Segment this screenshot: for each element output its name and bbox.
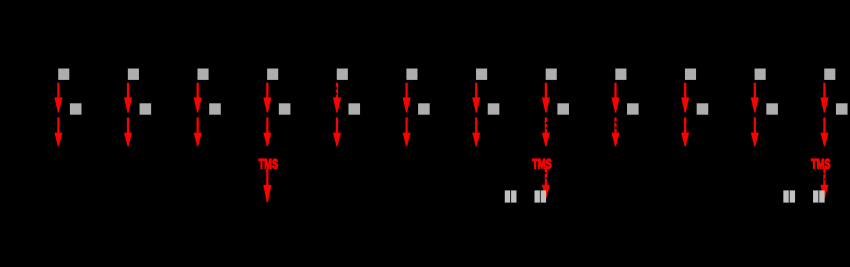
- probe square trial 7: [488, 103, 500, 114]
- red pulse arrow 1 trial 2: [124, 83, 132, 113]
- red pulse arrow 1 trial 9: [611, 83, 619, 113]
- trial 11 group: [751, 69, 778, 147]
- red pulse arrow 1 trial 3: [194, 83, 202, 113]
- trial 12 group: [783, 69, 847, 203]
- red pulse arrow 2 trial 9: [611, 117, 619, 146]
- red pulse arrow 3 trial 4: [263, 169, 271, 203]
- stimulus square trial 9: [615, 69, 626, 80]
- red pulse arrow 1 trial 11: [751, 83, 759, 113]
- trial 5 group: [333, 69, 360, 147]
- trial 4 group: [259, 69, 291, 203]
- probe square trial 2: [140, 103, 152, 114]
- probe square trial 4: [279, 103, 291, 114]
- response key pair left trial 12: [783, 190, 795, 202]
- probe square trial 9: [627, 103, 639, 114]
- svg-text:TMS: TMS: [532, 157, 552, 172]
- probe square trial 3: [209, 103, 221, 114]
- stimulus square trial 10: [685, 69, 696, 80]
- svg-text:TMS: TMS: [811, 157, 831, 172]
- red pulse arrow 2 trial 8: [542, 117, 550, 146]
- red pulse arrow 1 trial 1: [54, 83, 62, 113]
- red pulse arrow 1 trial 12: [820, 83, 828, 113]
- probe square trial 1: [70, 103, 82, 114]
- stimulus square trial 2: [128, 69, 139, 80]
- trial 7 group: [472, 69, 499, 147]
- trial 6 group: [403, 69, 430, 147]
- red label TMS trial 8: [532, 157, 552, 172]
- red pulse arrow 2 trial 1: [54, 117, 62, 146]
- red pulse arrow 1 trial 5: [333, 83, 341, 113]
- response key pair left trial 8: [505, 190, 517, 202]
- trial 3 group: [194, 69, 221, 147]
- red pulse arrow 1 trial 7: [472, 83, 480, 113]
- trial 10 group: [681, 69, 708, 147]
- red pulse arrow 2 trial 10: [681, 117, 689, 146]
- stimulus square trial 5: [337, 69, 348, 80]
- stimulus square trial 8: [546, 69, 557, 80]
- red pulse arrow 1 trial 10: [681, 83, 689, 113]
- red pulse arrow 1 trial 6: [403, 83, 411, 113]
- probe square trial 8: [557, 103, 569, 114]
- probe square trial 11: [766, 103, 778, 114]
- svg-text:TMS: TMS: [259, 157, 279, 172]
- red pulse arrow 2 trial 4: [263, 117, 271, 146]
- probe square trial 12: [836, 103, 848, 114]
- stimulus square trial 7: [476, 69, 487, 80]
- red pulse arrow 2 trial 2: [124, 117, 132, 146]
- response key pair right trial 12: [813, 190, 825, 202]
- probe square trial 10: [697, 103, 709, 114]
- trial 8 group: [505, 69, 569, 203]
- red pulse arrow 3 trial 8: [542, 168, 550, 198]
- stimulus square trial 3: [197, 69, 208, 80]
- red pulse arrow 1 trial 4: [263, 83, 271, 113]
- stimulus square trial 11: [755, 69, 766, 80]
- response key pair right trial 8: [534, 190, 546, 202]
- probe square trial 5: [348, 103, 360, 114]
- red pulse arrow 2 trial 7: [472, 117, 480, 146]
- trial 1 group: [54, 69, 81, 147]
- red pulse arrow 2 trial 5: [333, 117, 341, 146]
- red pulse arrow 3 trial 12: [820, 168, 828, 198]
- trial 2 group: [124, 69, 151, 147]
- stimulus square trial 4: [267, 69, 278, 80]
- stimulus square trial 6: [406, 69, 417, 80]
- red pulse arrow 1 trial 8: [542, 83, 550, 113]
- red label TMS trial 4: [259, 157, 279, 172]
- red pulse arrow 2 trial 12: [820, 117, 828, 146]
- stimulus square trial 12: [824, 69, 835, 80]
- trial 9 group: [611, 69, 638, 147]
- red pulse arrow 2 trial 11: [751, 117, 759, 146]
- stimulus square trial 1: [58, 69, 69, 80]
- red pulse arrow 2 trial 3: [194, 117, 202, 146]
- red label TMS trial 12: [811, 157, 831, 172]
- red pulse arrow 2 trial 6: [403, 117, 411, 146]
- probe square trial 6: [418, 103, 430, 114]
